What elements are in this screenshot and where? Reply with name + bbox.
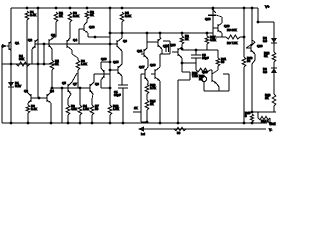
svg-text:R192.7K: R192.7K xyxy=(150,83,156,90)
svg-text:R82K: R82K xyxy=(59,11,63,18)
svg-text:Q5: Q5 xyxy=(62,81,66,85)
svg-text:Q3: Q3 xyxy=(24,89,28,93)
svg-text:V+: V+ xyxy=(265,5,270,9)
svg-text:R207.5K: R207.5K xyxy=(192,71,198,78)
svg-text:Q2: Q2 xyxy=(28,38,32,42)
svg-text:Q13: Q13 xyxy=(89,25,95,29)
svg-text:Q17: Q17 xyxy=(139,65,145,69)
svg-text:Q3: Q3 xyxy=(51,33,55,37)
svg-text:1K: 1K xyxy=(134,106,138,110)
svg-text:R92K: R92K xyxy=(185,34,189,41)
svg-text:R9 7.5K: R9 7.5K xyxy=(227,41,238,45)
svg-text:Q7: Q7 xyxy=(73,82,77,86)
svg-text:V-: V- xyxy=(269,128,272,132)
svg-text:R8 30K: R8 30K xyxy=(227,28,237,32)
svg-text:R14 1: R14 1 xyxy=(261,119,269,123)
svg-text:Q4: Q4 xyxy=(50,89,54,93)
svg-text:Q9: Q9 xyxy=(123,39,127,43)
svg-text:R23K: R23K xyxy=(90,10,94,17)
svg-text:Q16: Q16 xyxy=(170,43,176,47)
svg-text:Q16: Q16 xyxy=(101,57,107,61)
svg-text:Q1: Q1 xyxy=(15,41,19,45)
svg-text:R121.5K: R121.5K xyxy=(113,104,119,111)
svg-text:Q23: Q23 xyxy=(202,70,208,74)
svg-text:Q15: Q15 xyxy=(113,60,119,64)
svg-text:Q11: Q11 xyxy=(137,49,143,53)
svg-text:Q20: Q20 xyxy=(257,44,263,48)
svg-text:Q4: Q4 xyxy=(73,38,77,42)
svg-text:R51K: R51K xyxy=(55,59,59,66)
svg-text:Q18: Q18 xyxy=(150,63,156,67)
svg-text:Q9: Q9 xyxy=(95,82,99,86)
svg-text:50: 50 xyxy=(177,131,181,135)
svg-text:bal: bal xyxy=(141,132,145,136)
svg-text:Q18: Q18 xyxy=(205,17,211,21)
